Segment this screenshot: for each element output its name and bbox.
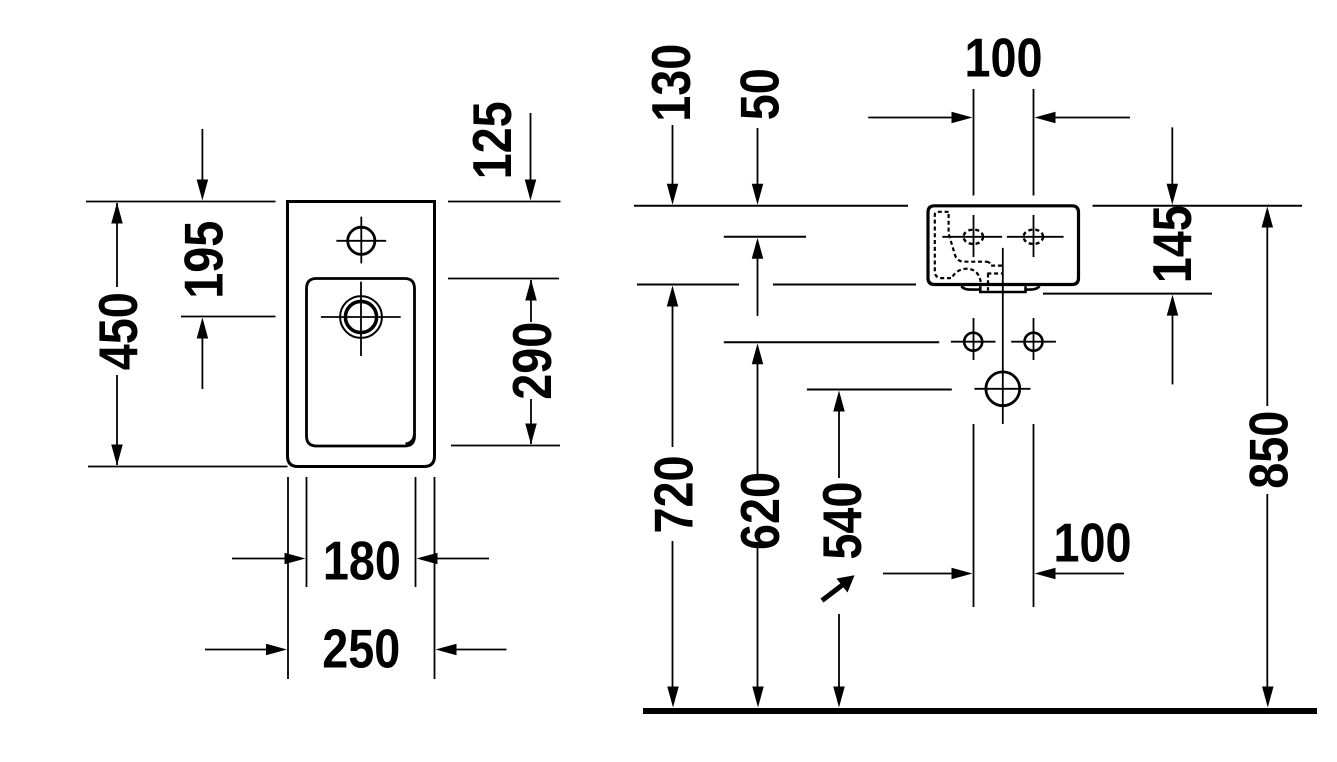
100 top arrow left <box>1035 112 1056 124</box>
svg-text:540: 540 <box>811 482 872 560</box>
720 arrow down <box>667 687 679 708</box>
top extension line left <box>86 201 276 203</box>
bowl section outer dashed <box>935 212 953 278</box>
850 arrow up <box>1262 207 1274 228</box>
720 dim line upper <box>672 305 674 447</box>
50 arrow down <box>752 184 764 205</box>
540 arrow up <box>833 391 845 412</box>
180 ext line left <box>306 477 308 587</box>
720 arrow up <box>667 286 679 307</box>
450 arrow up <box>111 203 123 224</box>
tap hole cross v <box>360 217 362 264</box>
drain cross h <box>321 316 401 318</box>
bowl depth contour arc <box>406 435 415 444</box>
100 top arrow right <box>952 112 973 124</box>
waste outlet circle <box>986 372 1020 406</box>
620 arrow up <box>752 343 764 364</box>
100 top right arrow shaft <box>1055 117 1130 119</box>
svg-text:720: 720 <box>643 456 704 534</box>
250 ext line right <box>434 477 436 679</box>
vertical ext line x1033 seg1 <box>1033 89 1035 196</box>
195 arrow up <box>197 318 209 339</box>
180 arrow left <box>417 553 438 565</box>
145 arrow up <box>1167 295 1179 316</box>
waste cross h <box>974 388 1030 390</box>
50 reference line <box>724 236 806 238</box>
svg-text:620: 620 <box>729 472 790 550</box>
450 arrow down <box>111 445 123 466</box>
rim reference line right <box>1093 205 1303 207</box>
290 arrow down <box>525 424 537 445</box>
100 bottom arrow left <box>1035 568 1056 580</box>
620 dim line lower <box>757 546 759 688</box>
svg-text:850: 850 <box>1238 411 1299 489</box>
bowl top extension line right <box>448 278 559 280</box>
waste reference line <box>807 389 952 391</box>
left fixing hole cross h <box>942 236 1002 238</box>
850 arrow down <box>1262 687 1274 708</box>
right fixing hole dashed <box>1024 230 1044 244</box>
720 dim line lower <box>672 541 674 688</box>
tap hole cross h <box>336 240 386 242</box>
250 left arrow shaft <box>205 649 267 651</box>
180 arrow right <box>285 553 306 565</box>
svg-text:250: 250 <box>322 618 400 679</box>
svg-text:145: 145 <box>1141 205 1202 283</box>
100 bottom left arrow shaft <box>883 573 953 575</box>
svg-text:50: 50 <box>729 68 790 120</box>
right supply hole circle <box>1025 333 1043 351</box>
145 bottom extension line <box>1043 293 1212 295</box>
bowl section inner dashed <box>949 214 987 262</box>
250 arrow left <box>436 644 457 656</box>
drain pipe dashed <box>987 274 989 291</box>
50 arrow up <box>752 238 764 259</box>
tap hole circle <box>348 227 375 254</box>
180 left arrow shaft <box>232 558 286 560</box>
250 ext line left <box>287 477 289 679</box>
145 lower arrow shaft <box>1172 315 1174 384</box>
supply holes reference line <box>724 341 939 343</box>
right supply cross h <box>1011 341 1056 343</box>
50 upper arrow shaft <box>757 128 759 185</box>
290 dim line upper <box>530 280 532 322</box>
620 dim line upper <box>757 363 759 476</box>
drain outer circle <box>340 296 382 338</box>
bottom reference line seg2 <box>773 284 916 286</box>
100 top left arrow shaft <box>868 117 952 119</box>
540 dim line upper <box>838 410 840 478</box>
drain cross v <box>360 282 362 356</box>
outlet channel lower dashed <box>987 272 1002 274</box>
svg-text:180: 180 <box>323 530 401 591</box>
basin outline (plan view) <box>288 202 435 467</box>
540 leader arrowhead <box>837 575 855 592</box>
125 arrow shaft <box>530 113 532 181</box>
bottom reference line seg1 <box>637 284 739 286</box>
left supply cross h <box>951 341 996 343</box>
left fixing hole dashed <box>964 230 984 244</box>
620 arrow down <box>752 687 764 708</box>
bottom extension line <box>88 466 288 468</box>
svg-text:125: 125 <box>462 101 523 179</box>
195 lower arrow shaft <box>201 338 203 390</box>
850 dim line lower <box>1266 494 1268 688</box>
450 dim line upper <box>116 203 118 287</box>
drain fitting rect <box>980 286 1025 292</box>
top extension line right <box>448 201 561 203</box>
540 dim line lower <box>838 614 840 688</box>
svg-text:130: 130 <box>641 44 702 122</box>
195 upper arrow shaft <box>201 129 203 181</box>
130 arrow shaft <box>672 125 674 185</box>
vertical ext line x973 seg1 <box>973 89 975 196</box>
125 arrow down <box>525 180 537 201</box>
siphon cup right <box>1026 286 1040 289</box>
svg-text:450: 450 <box>87 292 148 370</box>
540 arrow down <box>833 687 845 708</box>
bowl inner outline <box>307 279 415 447</box>
right fixing hole cross h <box>1007 236 1064 238</box>
siphon cup left <box>962 286 981 289</box>
180 right arrow shaft <box>437 558 490 560</box>
145 arrow down <box>1167 184 1179 205</box>
100 bottom right arrow shaft <box>1055 573 1124 575</box>
waste center line v <box>1002 248 1004 424</box>
195 arrow down <box>197 180 209 201</box>
250 arrow right <box>266 644 287 656</box>
siphon weir dashed <box>953 269 981 284</box>
outlet channel upper dashed <box>987 262 1003 266</box>
drain center extension line <box>181 316 276 318</box>
drain inner circle <box>345 301 376 332</box>
basin outline (front view) <box>928 206 1079 285</box>
850 dim line upper <box>1266 226 1268 406</box>
145 upper arrow shaft <box>1171 127 1173 184</box>
100 bottom arrow right <box>952 568 973 580</box>
290 arrow up <box>525 280 537 301</box>
50 lower arrow shaft <box>757 258 759 316</box>
left supply hole circle <box>964 333 982 351</box>
floor line <box>643 708 1317 714</box>
180 ext line right <box>415 477 417 587</box>
svg-text:100: 100 <box>1054 512 1132 573</box>
540 leader arrow shaft <box>822 583 845 601</box>
130 arrow down <box>667 184 679 205</box>
bowl bottom extension line right <box>451 445 560 447</box>
svg-text:290: 290 <box>501 322 562 400</box>
svg-text:195: 195 <box>173 221 234 299</box>
rim reference line left <box>634 205 908 207</box>
svg-text:100: 100 <box>965 27 1043 88</box>
250 right arrow shaft <box>456 649 507 651</box>
